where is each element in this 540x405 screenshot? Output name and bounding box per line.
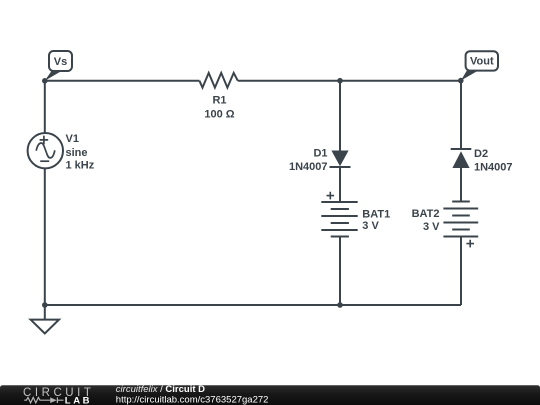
svg-text:http://circuitlab.com/c3763527: http://circuitlab.com/c3763527ga272 — [116, 395, 269, 405]
svg-text:R1: R1 — [212, 95, 226, 107]
svg-text:D1: D1 — [313, 148, 327, 160]
svg-text:BAT2: BAT2 — [412, 208, 440, 220]
svg-text:Vs: Vs — [54, 56, 67, 68]
svg-text:100 Ω: 100 Ω — [204, 109, 234, 121]
wire D2 branch top — [460, 81, 462, 149]
svg-text:circuitfelix / Circuit D: circuitfelix / Circuit D — [116, 384, 205, 395]
node Vout junction dot — [458, 78, 464, 84]
svg-text:3 V: 3 V — [423, 221, 440, 233]
svg-text:LAB: LAB — [65, 395, 92, 405]
wire left vertical from node Vs to V1 — [44, 81, 46, 133]
svg-text:D2: D2 — [474, 148, 488, 160]
svg-text:1N4007: 1N4007 — [474, 161, 513, 173]
svg-text:BAT1: BAT1 — [362, 208, 390, 220]
resistor R1 — [199, 73, 237, 88]
diode D1 — [331, 151, 348, 167]
wire bottom rail — [45, 304, 461, 306]
svg-text:sine: sine — [66, 147, 88, 159]
node junction dot at ground — [42, 302, 48, 308]
battery BAT2 — [443, 202, 478, 237]
wire BAT2 to bottom rail — [460, 237, 462, 306]
svg-text:3 V: 3 V — [362, 220, 379, 232]
battery BAT1 — [321, 202, 357, 237]
svg-text:1 kHz: 1 kHz — [66, 159, 95, 171]
svg-text:Vout: Vout — [470, 56, 494, 68]
node Vs junction dot — [42, 78, 48, 84]
voltage source V1 — [28, 133, 63, 168]
node Vout flag — [461, 51, 498, 80]
ground — [31, 320, 59, 334]
wire from V1 to bottom rail — [44, 168, 46, 305]
wire top-left segment from node Vs to R1 — [45, 80, 200, 82]
wire D2 to BAT2 — [460, 168, 462, 202]
node junction dot top at D1 — [337, 78, 343, 84]
node junction dot bottom at BAT1 — [337, 302, 343, 308]
node Vs flag — [45, 51, 72, 81]
diode D2 — [451, 148, 472, 150]
wire ground stub — [44, 305, 46, 320]
wire from R1 to node Vout — [238, 80, 461, 82]
svg-text:1N4007: 1N4007 — [289, 161, 328, 173]
footer logo resistor-diode glyph — [24, 397, 63, 403]
svg-text:V1: V1 — [66, 133, 79, 145]
wire D1 branch top — [339, 81, 341, 151]
wire BAT1 to bottom rail — [339, 237, 341, 306]
footer bar — [0, 385, 540, 405]
wire D1 to BAT1 — [339, 168, 341, 202]
